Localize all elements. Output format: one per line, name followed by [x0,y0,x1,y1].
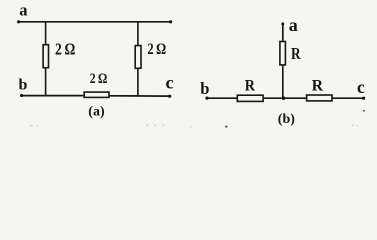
svg-text:R: R [245,78,256,95]
wire top stub circuit b [281,22,284,41]
wire top rail circuit a [17,20,172,23]
svg-text:b: b [19,76,28,93]
svg-text:b: b [200,79,209,98]
svg-text:2 Ω: 2 Ω [55,40,75,59]
scan speckles [30,110,365,128]
wire middle with junction circuit b [263,96,307,100]
resistor R-right 2ohm vertical [135,21,141,96]
wire right resistor to c circuit b [332,97,365,100]
svg-text:c: c [166,73,174,93]
svg-text:R: R [291,44,301,63]
svg-text:a: a [289,15,298,35]
wire bottom rail left segment circuit a [20,94,85,97]
resistor R left horizontal circuit b [237,95,263,101]
wire bottom rail right segment circuit a [109,95,171,98]
svg-text:c: c [357,77,365,97]
svg-text:2 Ω: 2 Ω [147,40,166,58]
resistor R right horizontal circuit b [307,95,332,101]
svg-text:R: R [312,78,324,95]
resistor R vertical circuit b [280,42,286,99]
svg-text:a: a [19,1,27,20]
svg-text:(a): (a) [88,105,105,120]
resistor R-left 2ohm vertical [43,21,48,96]
resistor 2ohm middle horizontal [84,92,109,97]
wire b to left resistor circuit b [205,97,237,100]
svg-text:2 Ω: 2 Ω [90,71,108,87]
svg-text:(b): (b) [278,112,295,127]
